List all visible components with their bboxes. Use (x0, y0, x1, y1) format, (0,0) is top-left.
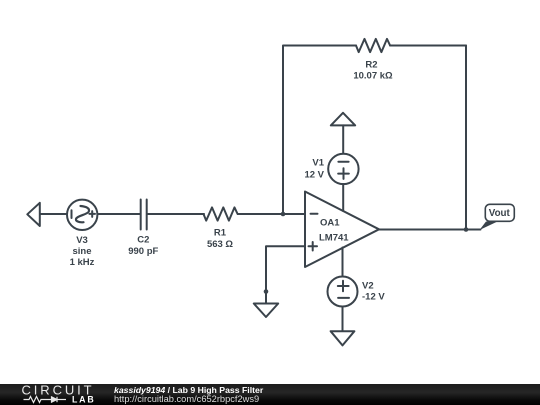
wire feedback right vertical (465, 46, 467, 230)
op-amp OA1 body (305, 192, 379, 268)
url text (114, 395, 263, 404)
flag Vout tail (480, 222, 498, 231)
svg-text:-12 V: -12 V (362, 292, 385, 303)
source V2 (328, 277, 358, 307)
svg-text:Vout: Vout (489, 208, 511, 219)
svg-text:563 Ω: 563 Ω (207, 239, 233, 250)
wire op-amp V- pin to V2 (342, 248, 344, 277)
svg-text:V2: V2 (362, 281, 374, 292)
capacitor C2 (141, 200, 147, 230)
wire V1 to op-amp V+ pin (342, 184, 344, 211)
CircuitLab logo (19, 384, 99, 405)
source V1 (328, 154, 358, 184)
svg-text:V3: V3 (76, 235, 88, 246)
svg-text:10.07 kΩ: 10.07 kΩ (353, 71, 393, 82)
input terminal flag (27, 203, 40, 226)
svg-text:sine: sine (72, 246, 91, 257)
svg-text:R2: R2 (365, 60, 377, 71)
wire output (379, 229, 481, 231)
flag Vout bubble (485, 204, 514, 221)
logo resistor-diode glyph (24, 397, 67, 403)
wire R2 to right vertical (390, 45, 466, 47)
wire V2 to V- flag (342, 307, 344, 332)
svg-text:C2: C2 (137, 235, 149, 246)
node inverting input junction (281, 212, 286, 217)
svg-text:V1: V1 (312, 158, 324, 169)
source V3 (67, 200, 97, 230)
title text (114, 386, 263, 404)
power flag V+ (up triangle) (331, 113, 355, 126)
svg-text:R1: R1 (214, 228, 227, 239)
wire C2 to R1 (148, 213, 205, 215)
svg-text:OA1: OA1 (320, 218, 340, 229)
power flag V- (down triangle) (331, 331, 355, 345)
wire non-inverting input to ground (266, 246, 305, 303)
ground flag (254, 304, 278, 318)
resistor R1 (204, 207, 238, 220)
node ground junction (264, 289, 269, 294)
svg-text:LM741: LM741 (319, 233, 349, 244)
svg-text:990 pF: 990 pF (128, 246, 158, 257)
wire input to V3 (40, 213, 67, 215)
footer bar (0, 384, 540, 405)
resistor R2 (356, 39, 390, 52)
svg-text:1 kHz: 1 kHz (70, 257, 95, 268)
node output junction (464, 227, 469, 232)
wire flag to V1 (342, 125, 344, 153)
svg-text:12 V: 12 V (304, 170, 324, 181)
wire V3 to C2 (97, 213, 140, 215)
svg-text:LAB: LAB (72, 394, 95, 404)
wire R1 to op-amp (238, 213, 305, 215)
wire feedback left vertical (283, 46, 356, 215)
